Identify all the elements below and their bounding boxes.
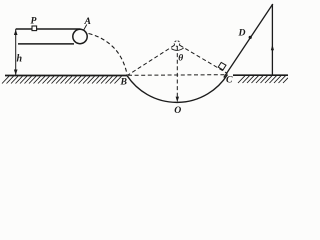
- right-angle square at C: [218, 62, 226, 70]
- track bottom line: [18, 43, 74, 45]
- dashed chord B-C: [128, 74, 225, 77]
- svg-text:B: B: [120, 77, 128, 88]
- center mark (small circle): [174, 41, 180, 47]
- track top line: [16, 28, 81, 30]
- angle arc: [171, 48, 184, 51]
- point D dot: [249, 36, 252, 39]
- ground right (line): [233, 74, 288, 76]
- svg-text:O: O: [174, 105, 181, 116]
- leader from A to ball: [84, 25, 87, 31]
- svg-text:P: P: [31, 16, 37, 27]
- ball A: [73, 29, 87, 43]
- svg-text:D: D: [238, 28, 246, 39]
- ground right hatching: [238, 76, 288, 83]
- svg-text:A: A: [84, 16, 92, 27]
- small arrow on vertical: [271, 45, 274, 51]
- svg-text:θ: θ: [178, 54, 183, 64]
- right vertical line: [271, 4, 273, 75]
- valley arc B-O-C: [127, 75, 228, 103]
- dashed trajectory A to B: [89, 34, 128, 76]
- svg-text:C: C: [226, 75, 233, 86]
- svg-text:h: h: [17, 54, 23, 65]
- dashed radius to C: [180, 45, 228, 73]
- h dimension line with arrows: [15, 29, 17, 75]
- ground left (line): [5, 75, 127, 77]
- incline C-D: [224, 4, 273, 78]
- dashed vertical center line to O: [176, 47, 178, 100]
- dashed radius to B: [128, 45, 175, 75]
- ground left hatching: [2, 76, 122, 83]
- block P (small square on track): [32, 26, 37, 31]
